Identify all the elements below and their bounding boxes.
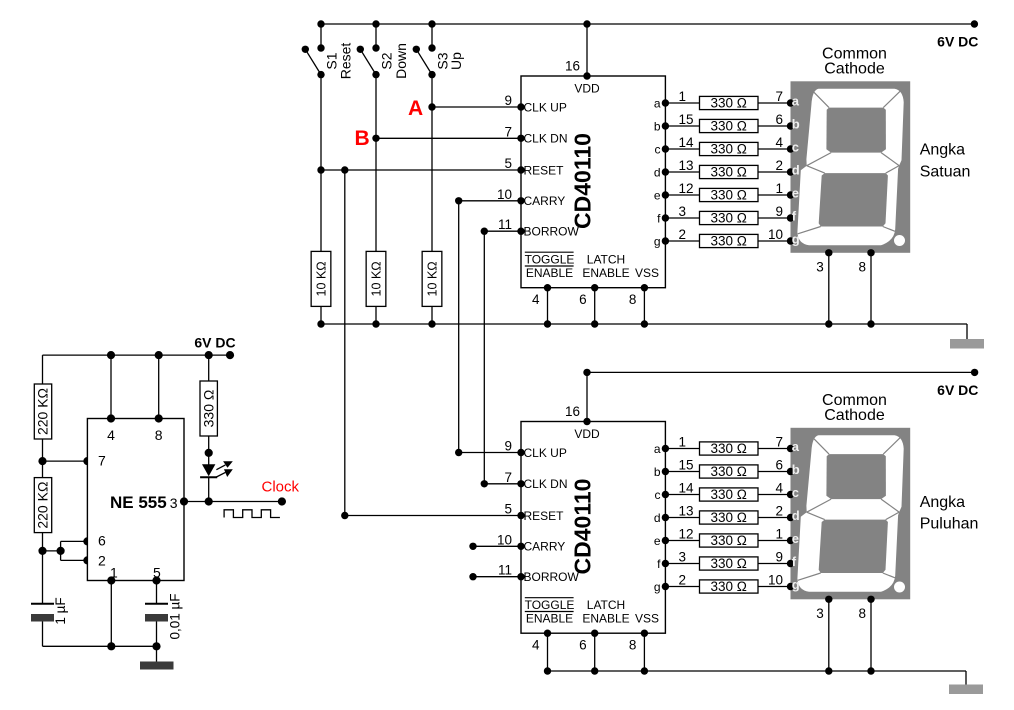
svg-text:9: 9 [504, 439, 512, 454]
svg-text:7: 7 [775, 435, 783, 450]
svg-text:330 Ω: 330 Ω [711, 533, 747, 548]
U1 pin 11 dot (BORROW) [517, 228, 524, 235]
svg-text:1 µF: 1 µF [53, 597, 68, 624]
svg-text:16: 16 [565, 404, 580, 419]
switch S1 lever [305, 49, 321, 74]
wire U1 pin 6 to ground rail [594, 288, 596, 324]
wire pin 5 to C2 [156, 581, 158, 604]
junction S1/RESET/R1 [317, 166, 324, 173]
wire resistor to display c [758, 494, 791, 496]
svg-text:4: 4 [775, 481, 783, 496]
wire VDD U1 [586, 24, 588, 76]
svg-text:RESET: RESET [524, 509, 565, 523]
U2 pin dot segment g [662, 583, 669, 590]
svg-text:e: e [654, 188, 661, 202]
U1 pin 9 dot (CLK UP) [517, 103, 524, 110]
display DS1 pin dot g [787, 237, 794, 244]
svg-text:7: 7 [98, 452, 106, 468]
display DS1 pin 8 dot [867, 249, 874, 256]
NE555 pin 1 dot [107, 576, 115, 584]
NE555 pin 8 dot [155, 414, 163, 422]
junction [641, 667, 648, 674]
svg-text:VSS: VSS [635, 612, 659, 626]
U1 pin 6 dot [591, 284, 598, 291]
svg-text:b: b [792, 117, 800, 132]
wire resistor to display d [758, 517, 791, 519]
svg-text:10 KΩ: 10 KΩ [426, 261, 440, 296]
svg-text:g: g [792, 577, 800, 592]
svg-text:g: g [792, 232, 800, 247]
wire resistor to display b [758, 125, 791, 127]
svg-text:CD40110: CD40110 [570, 479, 596, 575]
svg-text:3: 3 [170, 495, 178, 511]
svg-text:CARRY: CARRY [524, 194, 566, 208]
U1 pin 8 dot [641, 284, 648, 291]
svg-text:4: 4 [532, 292, 540, 307]
resistor 330 ohm (segment g) [700, 580, 759, 593]
resistor R3 330 ohm [200, 381, 217, 436]
wire resistor to display c [758, 148, 791, 150]
svg-text:330 Ω: 330 Ω [711, 211, 747, 226]
display DS2 pin dot g [787, 583, 794, 590]
svg-text:VDD: VDD [574, 427, 600, 441]
NE555 pin 2 dot [83, 556, 91, 564]
display DS1 pin dot f [787, 214, 794, 221]
switch S3 bottom contact [428, 71, 435, 78]
svg-text:5: 5 [504, 502, 512, 517]
svg-text:g: g [654, 234, 661, 248]
switch S2 top contact [372, 44, 379, 51]
capacitor C1 1uF top plate [31, 603, 54, 605]
switch S1 lever free end [302, 46, 309, 53]
svg-text:3: 3 [679, 204, 687, 219]
svg-text:7: 7 [504, 470, 512, 485]
wire pin 8 to rail [158, 355, 160, 418]
display DS1 decimal point [894, 235, 905, 246]
display DS1 pin dot a [787, 99, 794, 106]
svg-text:14: 14 [679, 481, 695, 496]
svg-text:9: 9 [504, 93, 512, 108]
display DS2 pin dot b [787, 468, 794, 475]
wire to NE555 pin 7 [43, 460, 88, 462]
wire resistor to display a [758, 102, 791, 104]
junction [825, 320, 832, 327]
svg-text:10: 10 [768, 227, 783, 242]
svg-text:c: c [792, 140, 799, 155]
svg-text:8: 8 [629, 638, 637, 653]
junction [544, 320, 551, 327]
stub U2 BORROW [473, 576, 521, 578]
resistor 330 ohm (segment b) [700, 119, 759, 132]
svg-text:VSS: VSS [635, 266, 659, 280]
wire fork to pin 2 [61, 559, 88, 561]
U1 pin 16 dot (VDD) [583, 72, 590, 79]
junction [867, 320, 874, 327]
resistor R6 10 Kohm [422, 251, 442, 306]
svg-text:330 Ω: 330 Ω [711, 96, 747, 111]
U1 pin 7 dot (CLK DN) [517, 135, 524, 142]
resistor R1 220 Kohm [34, 384, 51, 439]
wire CARRY down to U2 CLK UP [458, 201, 460, 453]
switch S2 lever free end [357, 46, 364, 53]
wire C2 to ground rail [156, 622, 158, 647]
svg-text:10: 10 [497, 532, 512, 547]
svg-text:f: f [792, 209, 797, 224]
wire U2 pin 6 to ground rail [594, 633, 596, 671]
switch S2 wire from top rail [375, 24, 377, 48]
svg-text:3: 3 [679, 550, 687, 565]
svg-text:6V DC: 6V DC [194, 335, 235, 351]
junction LED branch rail [205, 351, 213, 359]
terminal U2 BORROW [469, 573, 476, 580]
svg-text:e: e [792, 186, 799, 201]
U1 pin dot segment c [662, 145, 669, 152]
U2 pin dot segment a [662, 445, 669, 452]
7-segment display DS1 body [791, 81, 911, 253]
switch S1 top contact [317, 44, 324, 51]
NE555 pin 6 dot [83, 537, 91, 545]
svg-text:B: B [355, 127, 370, 150]
wire g to resistor [665, 586, 699, 588]
svg-text:4: 4 [532, 638, 540, 653]
ground rail (second block) [548, 670, 967, 672]
svg-text:Angka: Angka [920, 494, 965, 511]
svg-text:10 KΩ: 10 KΩ [315, 261, 329, 296]
svg-text:b: b [654, 465, 661, 479]
wire resistor to display g [758, 240, 791, 242]
svg-text:Cathode: Cathode [824, 61, 885, 78]
wire d to resistor [665, 517, 699, 519]
resistor R4 10 Kohm [311, 251, 331, 306]
U2 pin 9 dot (CLK UP) [517, 449, 524, 456]
svg-text:330 Ω: 330 Ω [200, 390, 216, 428]
clock output terminal [278, 497, 286, 505]
svg-text:CD40110: CD40110 [570, 133, 596, 229]
wire c to resistor [665, 148, 699, 150]
svg-text:10: 10 [768, 573, 783, 588]
svg-text:8: 8 [858, 259, 866, 274]
U1 pin dot segment d [662, 168, 669, 175]
svg-text:12: 12 [679, 181, 694, 196]
wire node B to U1 CLK DN [376, 137, 521, 139]
resistor 330 ohm (segment c) [700, 142, 759, 155]
U2 pin dot segment c [662, 491, 669, 498]
wire R2 to junction [42, 533, 44, 551]
wire to ground symbol (NE555) [156, 646, 158, 661]
wire rail down to R1 [42, 355, 44, 384]
U1 pin 4 dot [544, 284, 551, 291]
svg-text:330 Ω: 330 Ω [711, 441, 747, 456]
wire R5 to ground rail [375, 306, 377, 324]
junction R5 ground rail [372, 320, 379, 327]
junction clock node [205, 497, 213, 505]
switch S3 lever [416, 49, 432, 74]
svg-text:13: 13 [679, 504, 694, 519]
svg-text:10: 10 [497, 187, 512, 202]
svg-text:10 KΩ: 10 KΩ [370, 261, 384, 296]
wire resistor to display g [758, 586, 791, 588]
svg-text:7: 7 [504, 124, 512, 139]
junction pin 4 rail [107, 351, 115, 359]
wire to U2 CLK UP [459, 452, 521, 454]
svg-text:4: 4 [775, 135, 783, 150]
U2 pin dot segment f [662, 560, 669, 567]
junction [867, 667, 874, 674]
wire rail down to R3 [208, 355, 210, 381]
svg-text:8: 8 [629, 292, 637, 307]
NE555 pin 4 dot [107, 414, 115, 422]
wire resistor to display f [758, 563, 791, 565]
svg-text:6: 6 [579, 292, 587, 307]
junction BORROW corner [481, 228, 488, 235]
wire a to resistor [665, 102, 699, 104]
LED D1 triangle [208, 453, 210, 465]
display DS2 pin dot c [787, 491, 794, 498]
wire b to resistor [665, 471, 699, 473]
wire LED to clock node [208, 477, 210, 501]
svg-text:d: d [792, 163, 800, 178]
LED light arrow 1 [216, 465, 225, 470]
wire a to resistor [665, 448, 699, 450]
power rail 6V DC (second) [587, 371, 975, 373]
wire node B down to R5 [375, 138, 377, 251]
svg-text:Down: Down [393, 43, 409, 79]
NE555 pin 5 dot [152, 576, 160, 584]
svg-text:LATCH: LATCH [587, 253, 625, 267]
wire resistor to display d [758, 171, 791, 173]
wire U1 BORROW [484, 230, 521, 232]
svg-text:a: a [792, 94, 800, 109]
wire junction down to C1 [42, 551, 44, 604]
svg-text:RESET: RESET [524, 163, 565, 177]
svg-text:ENABLE: ENABLE [582, 612, 629, 626]
wire resistor to display a [758, 448, 791, 450]
NE555 pin 3 dot [180, 497, 188, 505]
display DS2 pin dot e [787, 537, 794, 544]
svg-text:TOGGLE: TOGGLE [525, 253, 575, 267]
U2 pin 8 dot [641, 630, 648, 637]
svg-text:b: b [792, 462, 800, 477]
resistor 330 ohm (segment f) [700, 211, 759, 224]
svg-text:Cathode: Cathode [824, 407, 885, 424]
svg-text:Angka: Angka [920, 142, 965, 159]
svg-text:4: 4 [107, 427, 115, 443]
svg-text:VDD: VDD [574, 82, 600, 96]
svg-text:a: a [792, 439, 800, 454]
svg-text:1: 1 [679, 435, 687, 450]
capacitor C1 1uF bottom plate [31, 614, 54, 622]
svg-text:6: 6 [775, 112, 783, 127]
ground rail (top block) [321, 323, 967, 325]
svg-text:d: d [654, 165, 661, 179]
wire display pin 3 to ground rail [828, 253, 830, 324]
svg-text:BORROW: BORROW [524, 225, 580, 239]
svg-text:16: 16 [565, 59, 580, 74]
wire R1 to pin 7 node [42, 439, 44, 461]
svg-text:g: g [654, 580, 661, 594]
resistor 330 ohm (segment b) [700, 465, 759, 478]
switch S3 lever free end [413, 46, 420, 53]
svg-text:2: 2 [98, 553, 106, 569]
display DS2 pin dot f [787, 560, 794, 567]
wire display pin 3 to ground rail [828, 599, 830, 671]
wire R4 to ground rail [320, 306, 322, 324]
power rail end terminal (NE555) [226, 351, 234, 359]
svg-text:330 Ω: 330 Ω [711, 510, 747, 525]
svg-text:13: 13 [679, 158, 694, 173]
junction S3 rail [428, 20, 435, 27]
switch S1 bottom contact [317, 71, 324, 78]
svg-text:7: 7 [775, 89, 783, 104]
wire f to resistor [665, 563, 699, 565]
U1 pin 5 dot (RESET) [517, 166, 524, 173]
svg-text:ENABLE: ENABLE [526, 266, 573, 280]
svg-text:2: 2 [679, 573, 687, 588]
U2 pin dot segment d [662, 514, 669, 521]
ground symbol (second block) [949, 685, 983, 695]
svg-text:TOGGLE: TOGGLE [525, 598, 575, 612]
power rail end terminal [971, 20, 978, 27]
power rail end terminal (second) [971, 369, 978, 376]
svg-text:a: a [654, 442, 661, 456]
display DS2 digit 8 [797, 435, 903, 592]
wire f to resistor [665, 217, 699, 219]
resistor R5 10 Kohm [366, 251, 386, 306]
7-segment display DS2 body [791, 428, 911, 600]
capacitor C2 0.01uF bottom plate [145, 614, 168, 622]
U2 pin 5 dot (RESET) [517, 512, 524, 519]
svg-text:6: 6 [579, 638, 587, 653]
ground symbol (top block) [950, 339, 984, 349]
U2 pin 4 dot [544, 630, 551, 637]
NE555 pin 7 dot [83, 457, 91, 465]
junction RESET to second counter [341, 166, 348, 173]
junction [641, 320, 648, 327]
svg-text:330 Ω: 330 Ω [711, 464, 747, 479]
wire S3 down to node A [431, 75, 433, 107]
wire U2 pin 4 to ground rail [547, 633, 549, 671]
svg-text:330 Ω: 330 Ω [711, 188, 747, 203]
node B junction [372, 135, 379, 142]
display DS2 pin 8 dot [867, 596, 874, 603]
junction R6 ground rail [428, 320, 435, 327]
display DS1 pin dot e [787, 191, 794, 198]
LED light arrow 2 [216, 472, 225, 477]
svg-text:e: e [792, 531, 799, 546]
U1 pin dot segment f [662, 214, 669, 221]
resistor 330 ohm (segment f) [700, 557, 759, 570]
svg-text:0,01 µF: 0,01 µF [168, 593, 183, 639]
svg-text:6V DC: 6V DC [937, 34, 978, 50]
display DS1 pin dot c [787, 145, 794, 152]
wire U1 pin 8 to ground rail [643, 288, 645, 324]
U2 pin 10 dot (CARRY) [517, 543, 524, 550]
wire display pin 8 to ground rail [870, 253, 872, 324]
wire c to resistor [665, 494, 699, 496]
junction C2 ground rail [152, 642, 160, 650]
power rail 6V DC (NE555) [43, 354, 231, 356]
svg-text:Up: Up [448, 52, 464, 70]
U2 pin dot segment e [662, 537, 669, 544]
switch S3 wire from top rail [431, 24, 433, 48]
wire resistor to display b [758, 471, 791, 473]
junction [825, 667, 832, 674]
svg-text:9: 9 [775, 550, 783, 565]
junction VDD U1 rail [583, 20, 590, 27]
switch S3 top contact [428, 44, 435, 51]
resistor 330 ohm (segment e) [700, 188, 759, 201]
junction pin 8 rail [155, 351, 163, 359]
svg-text:d: d [654, 511, 661, 525]
junction [544, 667, 551, 674]
wire U1 CARRY [459, 200, 521, 202]
wire U2 pin 8 to ground rail [643, 633, 645, 671]
U2 pin 16 dot (VDD) [583, 418, 590, 425]
svg-text:8: 8 [858, 606, 866, 621]
display DS2 pin 3 dot [825, 596, 832, 603]
resistor R2 220 Kohm [34, 478, 51, 533]
junction R4 ground rail [317, 320, 324, 327]
svg-text:2: 2 [775, 504, 783, 519]
svg-text:Clock: Clock [262, 479, 300, 496]
wire g to resistor [665, 240, 699, 242]
svg-text:220 KΩ: 220 KΩ [35, 388, 51, 435]
wire R6 to ground rail [431, 306, 433, 324]
junction at U2 CLK DN corner [481, 480, 488, 487]
resistor 330 ohm (segment c) [700, 488, 759, 501]
display DS1 pin dot d [787, 168, 794, 175]
svg-text:330 Ω: 330 Ω [711, 556, 747, 571]
IC U1 CD40110 body [521, 76, 665, 288]
wire ground rail to ground symbol (second) [965, 671, 967, 685]
wire R2 top [42, 461, 44, 478]
svg-text:2: 2 [775, 158, 783, 173]
wire pin 1 to ground rail [110, 581, 112, 647]
svg-text:330 Ω: 330 Ω [711, 579, 747, 594]
junction [591, 320, 598, 327]
svg-text:Puluhan: Puluhan [920, 516, 979, 533]
IC U3 NE555 body [87, 419, 184, 581]
svg-text:c: c [792, 485, 799, 500]
svg-text:ENABLE: ENABLE [582, 266, 629, 280]
svg-text:CLK UP: CLK UP [524, 446, 567, 460]
wire VDD U2 [586, 372, 588, 421]
svg-text:1: 1 [775, 527, 783, 542]
display DS1 pin 3 dot [825, 249, 832, 256]
junction S2 rail [372, 20, 379, 27]
junction pin 1 ground rail [107, 642, 115, 650]
svg-text:a: a [654, 96, 661, 110]
display DS2 pin dot d [787, 514, 794, 521]
svg-text:330 Ω: 330 Ω [711, 142, 747, 157]
wire node A down to R6 [431, 107, 433, 251]
display DS2 pin dot a [787, 445, 794, 452]
wire RESET net to U1 pin 5 [321, 169, 521, 171]
svg-text:e: e [654, 534, 661, 548]
U1 pin dot segment a [662, 99, 669, 106]
svg-text:6: 6 [98, 533, 106, 549]
wire resistor to display f [758, 217, 791, 219]
wire junction to fork [43, 550, 61, 552]
wire RESET net to U2 pin 5 [345, 515, 521, 517]
wire S1 to RESET node [320, 75, 322, 170]
svg-text:14: 14 [679, 135, 695, 150]
switch S1 wire from top rail [320, 24, 322, 48]
U2 pin dot segment b [662, 468, 669, 475]
fork junction [57, 547, 65, 555]
svg-text:6: 6 [775, 458, 783, 473]
svg-text:CARRY: CARRY [524, 540, 566, 554]
